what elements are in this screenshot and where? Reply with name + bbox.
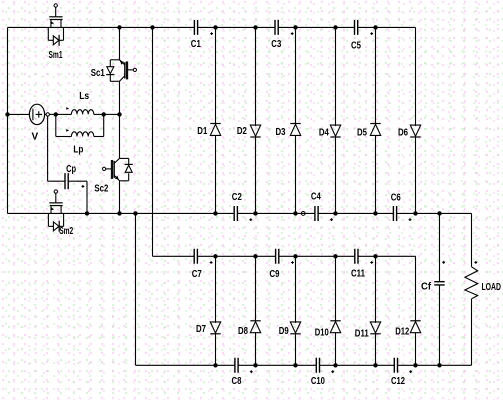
diode D7 <box>210 322 220 333</box>
svg-text:C9: C9 <box>270 269 280 280</box>
wire: middle rail <box>8 212 235 214</box>
svg-text:Sc2: Sc2 <box>94 184 108 195</box>
polarity mark C3 <box>291 32 294 35</box>
capacitor C2 <box>234 206 237 221</box>
polarity mark C9 <box>291 261 294 264</box>
diode D6 <box>410 125 420 136</box>
svg-text:V: V <box>31 132 38 143</box>
capacitor C3 <box>275 20 278 35</box>
wire: column D10 <box>335 256 337 321</box>
svg-text:D7: D7 <box>196 324 206 335</box>
svg-text:D3: D3 <box>276 127 286 138</box>
svg-text:D5: D5 <box>357 127 367 138</box>
diode D10 <box>330 320 340 322</box>
switch Sc2 <box>120 157 129 159</box>
svg-text:D9: D9 <box>279 326 289 337</box>
wire: stage-2 bottom bus <box>136 364 235 366</box>
polarity mark Cf <box>442 261 445 264</box>
svg-text:C1: C1 <box>191 39 201 50</box>
svg-text:D6: D6 <box>398 127 408 138</box>
polarity mark C4 <box>330 218 333 221</box>
voltage source V <box>29 104 44 124</box>
svg-text:C11: C11 <box>351 269 365 280</box>
capacitor Cp <box>47 116 49 181</box>
svg-text:Cf: Cf <box>421 281 432 292</box>
capacitor C11 <box>355 249 358 264</box>
wire: column D9 <box>295 256 297 323</box>
svg-text:C4: C4 <box>311 192 321 203</box>
capacitor C10 <box>316 358 319 373</box>
diode D8 <box>250 320 260 322</box>
capacitor C1 <box>194 20 197 35</box>
svg-text:D8: D8 <box>238 326 248 337</box>
transistor Sm1 <box>54 4 57 7</box>
wire: feed column stage1 top bus to stage2 top bus <box>152 27 154 256</box>
svg-text:LOAD: LOAD <box>481 282 501 293</box>
polarity mark C12 <box>409 370 412 373</box>
node: open terminal on rail <box>301 212 305 216</box>
svg-text:D12: D12 <box>395 327 409 338</box>
polarity mark LOAD <box>474 261 477 264</box>
wire: feed column rail to bottom bus <box>135 213 137 365</box>
wire: column D6 <box>415 27 417 126</box>
polarity mark C5 <box>370 32 373 35</box>
wire: column D8 <box>255 256 257 321</box>
switch Sc1 <box>110 59 119 61</box>
diode D4 <box>330 125 340 136</box>
svg-text:Sm2: Sm2 <box>59 226 73 237</box>
svg-text:C12: C12 <box>391 376 405 387</box>
capacitor C8 <box>235 358 238 373</box>
polarity mark C1 <box>210 32 213 35</box>
junction dots stage2 top bus <box>213 254 217 258</box>
capacitor C6 <box>393 206 396 221</box>
wire: switch column <box>119 27 121 59</box>
wire: column D4 <box>335 27 337 126</box>
capacitor C5 <box>355 20 358 35</box>
diode D3 <box>290 123 300 125</box>
polarity mark C6 <box>409 218 412 221</box>
diode D2 <box>250 125 260 136</box>
capacitor C7 <box>194 249 197 264</box>
junction dots bottom bus <box>213 363 217 367</box>
polarity mark C7 <box>210 261 213 264</box>
svg-text:Ls: Ls <box>79 91 89 102</box>
wire: column D12 <box>415 256 417 321</box>
svg-text:Lp: Lp <box>73 144 83 155</box>
junction dots source row <box>5 112 9 116</box>
junction dots rail <box>85 211 89 215</box>
svg-text:D2: D2 <box>237 126 247 137</box>
diode D5 <box>370 123 380 125</box>
wire: top bus <box>8 26 195 28</box>
svg-text:Sc1: Sc1 <box>91 68 105 79</box>
wire: column D2 <box>255 27 257 126</box>
svg-text:D1: D1 <box>197 126 207 137</box>
polarity mark C11 <box>370 261 373 264</box>
capacitor C9 <box>276 249 279 264</box>
transistor Sm2 <box>54 190 57 193</box>
svg-text:C2: C2 <box>232 192 242 203</box>
node: source output terminal <box>45 113 46 115</box>
diode D11 <box>370 322 380 333</box>
junction dots top bus <box>117 25 121 29</box>
capacitor Cf <box>439 213 441 281</box>
svg-text:C3: C3 <box>271 39 281 50</box>
wire: source left <box>8 113 30 115</box>
wire: source row to switch column <box>104 113 120 115</box>
svg-text:C7: C7 <box>192 269 202 280</box>
wire: left edge <box>7 27 9 213</box>
svg-text:D10: D10 <box>315 328 329 339</box>
diode D1 <box>210 123 220 125</box>
wire: column D1 <box>215 27 217 124</box>
wire: stage-2 top bus <box>153 255 195 257</box>
wire: column D3 <box>295 27 297 124</box>
svg-text:C5: C5 <box>351 41 361 52</box>
svg-text:C10: C10 <box>311 376 325 387</box>
svg-text:Sm1: Sm1 <box>49 50 63 61</box>
polarity mark C10 <box>331 370 334 373</box>
polarity dot Ls <box>66 107 69 110</box>
capacitor C4 <box>315 206 318 221</box>
wire: column D11 <box>375 256 377 323</box>
polarity dot Lp <box>66 129 69 132</box>
inductor Lp <box>55 114 57 136</box>
wire: column D5 <box>375 27 377 124</box>
diode D12 <box>410 320 420 322</box>
resistor LOAD <box>471 213 473 266</box>
svg-text:C8: C8 <box>232 376 242 387</box>
inductor Ls <box>56 113 72 115</box>
svg-text:Cp: Cp <box>66 164 76 175</box>
wire: column D7 <box>215 256 217 323</box>
capacitor C12 <box>394 358 397 373</box>
polarity mark C8 <box>250 370 253 373</box>
svg-text:D11: D11 <box>355 329 369 340</box>
svg-text:C6: C6 <box>391 192 401 203</box>
diode D9 <box>290 322 300 333</box>
polarity mark C2 <box>249 218 252 221</box>
polarity mark Cp <box>82 185 85 188</box>
svg-text:D4: D4 <box>319 127 329 138</box>
